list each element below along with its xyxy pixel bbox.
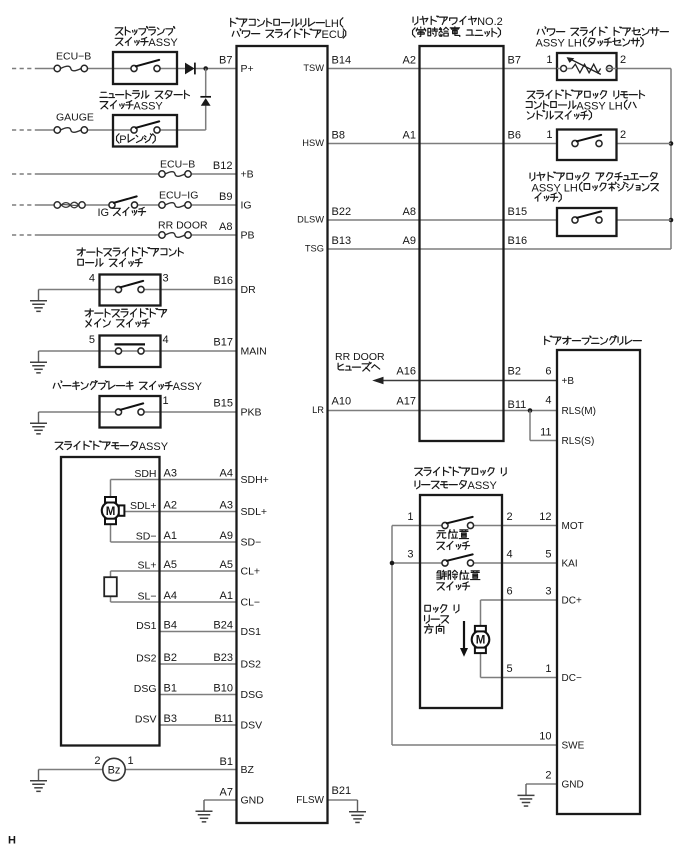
svg-text:GND: GND: [241, 795, 265, 807]
svg-text:A5: A5: [164, 559, 177, 571]
svg-text:B14: B14: [332, 55, 352, 67]
svg-text:B3: B3: [164, 713, 177, 725]
svg-text:1: 1: [546, 54, 552, 66]
svg-text:ASSY: ASSY: [133, 100, 163, 112]
svg-text:DR: DR: [241, 284, 257, 296]
svg-text:FLSW: FLSW: [296, 795, 324, 806]
svg-text:2: 2: [94, 755, 100, 767]
svg-text:MOT: MOT: [562, 521, 584, 532]
svg-text:SL−: SL−: [138, 590, 157, 602]
svg-text:SDH: SDH: [134, 468, 156, 480]
svg-text:B24: B24: [213, 619, 233, 631]
svg-text:4: 4: [545, 395, 551, 407]
svg-text:B7: B7: [219, 55, 232, 67]
svg-text:GND: GND: [562, 780, 584, 791]
svg-text:B11: B11: [508, 399, 527, 411]
svg-text:ASSY LH: ASSY LH: [536, 38, 582, 50]
svg-text:DSG: DSG: [134, 683, 157, 695]
svg-text:A4: A4: [164, 590, 177, 602]
svg-text:HSW: HSW: [302, 138, 324, 148]
svg-text:PKB: PKB: [241, 407, 262, 419]
svg-text:RR DOOR: RR DOOR: [335, 351, 385, 363]
svg-text:B16: B16: [508, 235, 528, 247]
svg-text:+B: +B: [241, 169, 254, 181]
svg-text:RR DOOR: RR DOOR: [158, 220, 208, 232]
svg-text:RLS(M): RLS(M): [562, 406, 596, 417]
svg-text:A5: A5: [220, 559, 233, 571]
svg-text:A8: A8: [219, 221, 232, 233]
svg-text:A8: A8: [403, 206, 416, 218]
svg-text:ASSY: ASSY: [139, 441, 169, 453]
svg-text:SDH+: SDH+: [241, 474, 269, 486]
svg-text:M: M: [476, 635, 486, 647]
svg-text:2: 2: [507, 511, 513, 523]
svg-text:DSV: DSV: [241, 720, 263, 732]
svg-text:B12: B12: [213, 160, 233, 172]
svg-text:LR: LR: [312, 405, 324, 415]
svg-text:CL−: CL−: [241, 597, 261, 609]
svg-text:5: 5: [545, 549, 551, 561]
svg-text:A1: A1: [403, 130, 416, 142]
svg-text:3: 3: [545, 586, 551, 598]
svg-text:A3: A3: [220, 499, 233, 511]
svg-text:SDL+: SDL+: [130, 500, 157, 512]
svg-text:2: 2: [545, 770, 551, 782]
svg-text:6: 6: [545, 366, 551, 378]
svg-text:A7: A7: [220, 787, 233, 799]
svg-text:DC+: DC+: [562, 596, 582, 607]
svg-text:DS2: DS2: [241, 659, 262, 671]
svg-text:12: 12: [539, 511, 551, 523]
svg-text:2: 2: [620, 54, 626, 66]
svg-text:B9: B9: [219, 191, 232, 203]
svg-text:SL+: SL+: [138, 559, 157, 571]
svg-text:5: 5: [89, 334, 95, 346]
svg-text:ASSY: ASSY: [173, 381, 203, 393]
svg-text:A1: A1: [220, 590, 233, 602]
svg-text:1: 1: [407, 511, 413, 523]
svg-text:11: 11: [540, 427, 551, 439]
svg-text:DS1: DS1: [241, 626, 262, 638]
svg-text:3: 3: [407, 549, 413, 561]
svg-text:IG: IG: [98, 207, 110, 219]
svg-text:ECU: ECU: [322, 29, 345, 41]
svg-text:B15: B15: [213, 398, 233, 410]
svg-text:B10: B10: [213, 682, 233, 694]
svg-text:B1: B1: [220, 756, 233, 768]
svg-text:DS1: DS1: [136, 620, 157, 632]
svg-text:6: 6: [507, 586, 513, 598]
svg-text:B11: B11: [214, 713, 233, 725]
svg-text:4: 4: [163, 334, 169, 346]
svg-text:TSG: TSG: [305, 244, 324, 254]
svg-text:ECU−B: ECU−B: [56, 51, 91, 63]
svg-text:A17: A17: [396, 396, 416, 408]
svg-text:B2: B2: [164, 652, 177, 664]
svg-text:B8: B8: [332, 130, 345, 142]
svg-text:SD−: SD−: [136, 530, 157, 542]
svg-text:ASSY: ASSY: [468, 480, 498, 492]
svg-text:DLSW: DLSW: [297, 215, 324, 225]
svg-text:4: 4: [89, 273, 95, 285]
svg-text:10: 10: [539, 731, 551, 743]
svg-text:A3: A3: [164, 467, 177, 479]
svg-text:B17: B17: [213, 337, 233, 349]
svg-text:B13: B13: [332, 235, 352, 247]
svg-text:CL+: CL+: [241, 566, 261, 578]
svg-text:B4: B4: [164, 619, 177, 631]
svg-text:IG: IG: [241, 200, 252, 212]
svg-text:A2: A2: [164, 499, 177, 511]
svg-text:H: H: [8, 835, 16, 847]
svg-text:2: 2: [620, 129, 626, 141]
svg-text:1: 1: [128, 755, 134, 767]
svg-text:ECU−B: ECU−B: [160, 159, 195, 171]
svg-text:KAI: KAI: [562, 559, 578, 570]
svg-text:4: 4: [507, 549, 513, 561]
svg-text:P: P: [119, 134, 126, 146]
svg-text:B2: B2: [508, 366, 521, 378]
svg-text:SD−: SD−: [241, 537, 262, 549]
svg-text:B16: B16: [213, 275, 233, 287]
svg-text:B15: B15: [508, 206, 528, 218]
svg-text:DSV: DSV: [135, 713, 157, 725]
svg-text:B6: B6: [508, 130, 521, 142]
svg-text:Bz: Bz: [108, 765, 121, 777]
svg-text:3: 3: [163, 273, 169, 285]
svg-text:1: 1: [546, 129, 552, 141]
svg-text:TSW: TSW: [303, 63, 324, 73]
svg-text:B1: B1: [164, 682, 177, 694]
svg-text:A1: A1: [164, 530, 177, 542]
svg-text:SDL+: SDL+: [241, 506, 268, 518]
svg-text:1: 1: [163, 395, 169, 407]
svg-text:NO.2: NO.2: [477, 16, 503, 28]
svg-text:DS2: DS2: [136, 652, 157, 664]
svg-text:M: M: [106, 506, 116, 518]
svg-text:ASSY LH: ASSY LH: [532, 182, 578, 194]
svg-text:5: 5: [507, 663, 513, 675]
svg-text:DSG: DSG: [241, 689, 264, 701]
svg-text:A9: A9: [220, 530, 233, 542]
svg-text:B7: B7: [508, 55, 521, 67]
svg-text:B21: B21: [332, 785, 352, 797]
svg-text:PB: PB: [241, 230, 255, 242]
svg-text:B23: B23: [213, 652, 233, 664]
svg-text:A9: A9: [403, 235, 416, 247]
svg-text:MAIN: MAIN: [241, 346, 267, 358]
svg-text:ASSY LH: ASSY LH: [576, 100, 622, 112]
svg-text:+B: +B: [562, 376, 575, 387]
svg-text:A10: A10: [332, 396, 352, 408]
svg-text:RLS(S): RLS(S): [562, 436, 595, 447]
svg-text:A16: A16: [396, 366, 416, 378]
svg-text:1: 1: [545, 663, 551, 675]
svg-text:B22: B22: [332, 206, 352, 218]
svg-text:P+: P+: [241, 63, 254, 75]
svg-text:ECU−IG: ECU−IG: [159, 190, 198, 202]
svg-text:BZ: BZ: [241, 764, 255, 776]
svg-text:A4: A4: [220, 467, 233, 479]
svg-text:SWE: SWE: [562, 741, 585, 752]
svg-text:GAUGE: GAUGE: [56, 112, 94, 124]
svg-text:A2: A2: [403, 55, 416, 67]
svg-text:DC−: DC−: [562, 673, 582, 684]
svg-text:ASSY: ASSY: [148, 37, 178, 49]
